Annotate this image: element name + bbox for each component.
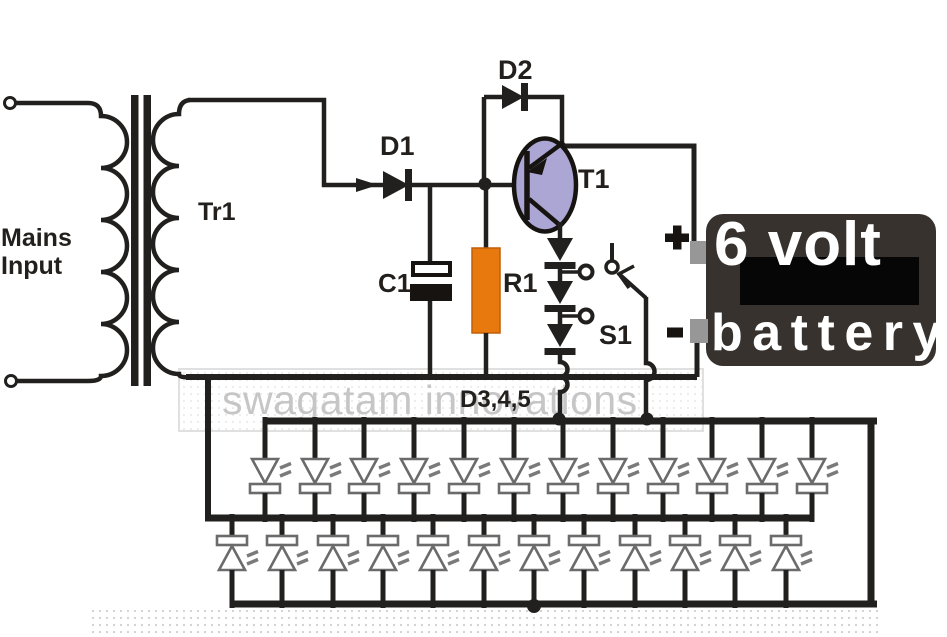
LED top row 8: [598, 417, 639, 522]
wire D2 to collector: [528, 97, 562, 142]
LED bottom row 2: [267, 514, 308, 608]
wire D5 to LED rail with hop: [560, 355, 568, 416]
svg-text:6 volt: 6 volt: [714, 210, 882, 279]
wire D1 to base node: [412, 183, 516, 188]
resistor R1: [472, 248, 500, 333]
node chain to rail: [553, 413, 566, 426]
tap 1: [560, 270, 580, 274]
svg-text:D2: D2: [498, 55, 533, 85]
node bottom rail junction: [527, 599, 541, 613]
main bottom wire: [186, 374, 697, 380]
wire collector to battery plus: [563, 146, 694, 242]
LED bottom row 11: [720, 514, 761, 608]
dotted texture bottom strip: [88, 610, 882, 633]
LED top row 9: [648, 417, 689, 522]
wire emitter to D3: [558, 222, 563, 240]
LED top row 12: [797, 417, 838, 522]
transformer Tr1 secondary winding: [153, 100, 190, 377]
LED bottom row 9: [620, 514, 661, 608]
LED bottom row 12: [771, 514, 812, 608]
svg-text:Input: Input: [1, 252, 63, 280]
LED top row 10: [697, 417, 738, 522]
diode D4: [547, 281, 573, 304]
battery body: [706, 214, 936, 366]
switch S1 arm: [618, 273, 646, 298]
wire secondary top: [188, 100, 383, 185]
LED top rail: [263, 418, 877, 425]
LED bottom row 5: [418, 514, 459, 608]
LED right edge wire: [868, 421, 875, 604]
mains input terminal bottom: [6, 376, 17, 387]
tap 2: [560, 314, 580, 318]
svg-text:battery: battery: [711, 304, 947, 362]
LED bottom row 4: [368, 514, 409, 608]
LED middle rail: [205, 515, 813, 522]
svg-text:T1: T1: [578, 164, 610, 194]
svg-text:S1: S1: [599, 320, 632, 350]
battery plus terminal: [690, 241, 707, 264]
wire D2 branch left: [482, 97, 487, 185]
LED top row 3: [349, 417, 390, 522]
watermark box: [179, 369, 703, 431]
wire left drop to middle rail: [205, 377, 211, 518]
wire R1 branch: [484, 185, 489, 250]
svg-text:D3,4,5: D3,4,5: [460, 386, 531, 413]
switch S1 stub: [610, 243, 614, 260]
transistor T1: [514, 139, 576, 232]
LED top row 2: [300, 417, 341, 522]
capacitor C1: [413, 263, 450, 275]
battery plus sign: [665, 234, 689, 243]
mains input terminal top: [5, 98, 16, 109]
wire input top: [16, 101, 88, 106]
svg-text:D1: D1: [380, 131, 415, 161]
LED bottom row 8: [569, 514, 610, 608]
battery minus sign: [667, 328, 683, 338]
LED top row 5: [449, 417, 490, 522]
wire input bottom: [17, 379, 88, 384]
svg-text:Mains: Mains: [1, 224, 72, 252]
transformer Tr1 primary winding: [88, 103, 127, 381]
battery minus terminal: [690, 319, 708, 343]
wire C1 branch: [428, 185, 433, 265]
node base junction: [479, 178, 492, 191]
LED top row 7: [548, 417, 589, 522]
LED bottom row 6: [469, 514, 510, 608]
LED bottom row 1: [217, 514, 258, 608]
diode D3: [547, 238, 573, 261]
LED top row 6: [499, 417, 540, 522]
svg-text:R1: R1: [503, 268, 538, 298]
wire minus to bottom rail: [695, 343, 700, 377]
current arrow into D1: [356, 178, 378, 192]
node S1 to rail: [641, 413, 654, 426]
LED bottom row 10: [670, 514, 711, 608]
LED bottom row 3: [318, 514, 359, 608]
LED top row 4: [399, 417, 440, 522]
switch S1 pole: [606, 261, 618, 273]
LED bottom rail: [232, 601, 877, 608]
diode D1: [383, 171, 409, 199]
LED bottom row 7: [519, 514, 560, 608]
svg-text:swagatam innovations: swagatam innovations: [222, 377, 638, 423]
svg-text:C1: C1: [378, 268, 411, 298]
LED top row 11: [747, 417, 788, 522]
svg-text:Tr1: Tr1: [198, 198, 236, 226]
LED top row 1: [250, 417, 291, 522]
diode D2: [502, 85, 524, 109]
dotted texture watermark band: [180, 368, 703, 432]
wire S1 to LED rail with hop: [646, 297, 655, 416]
transformer Tr1 core: [131, 95, 139, 386]
diode D5: [547, 324, 573, 347]
